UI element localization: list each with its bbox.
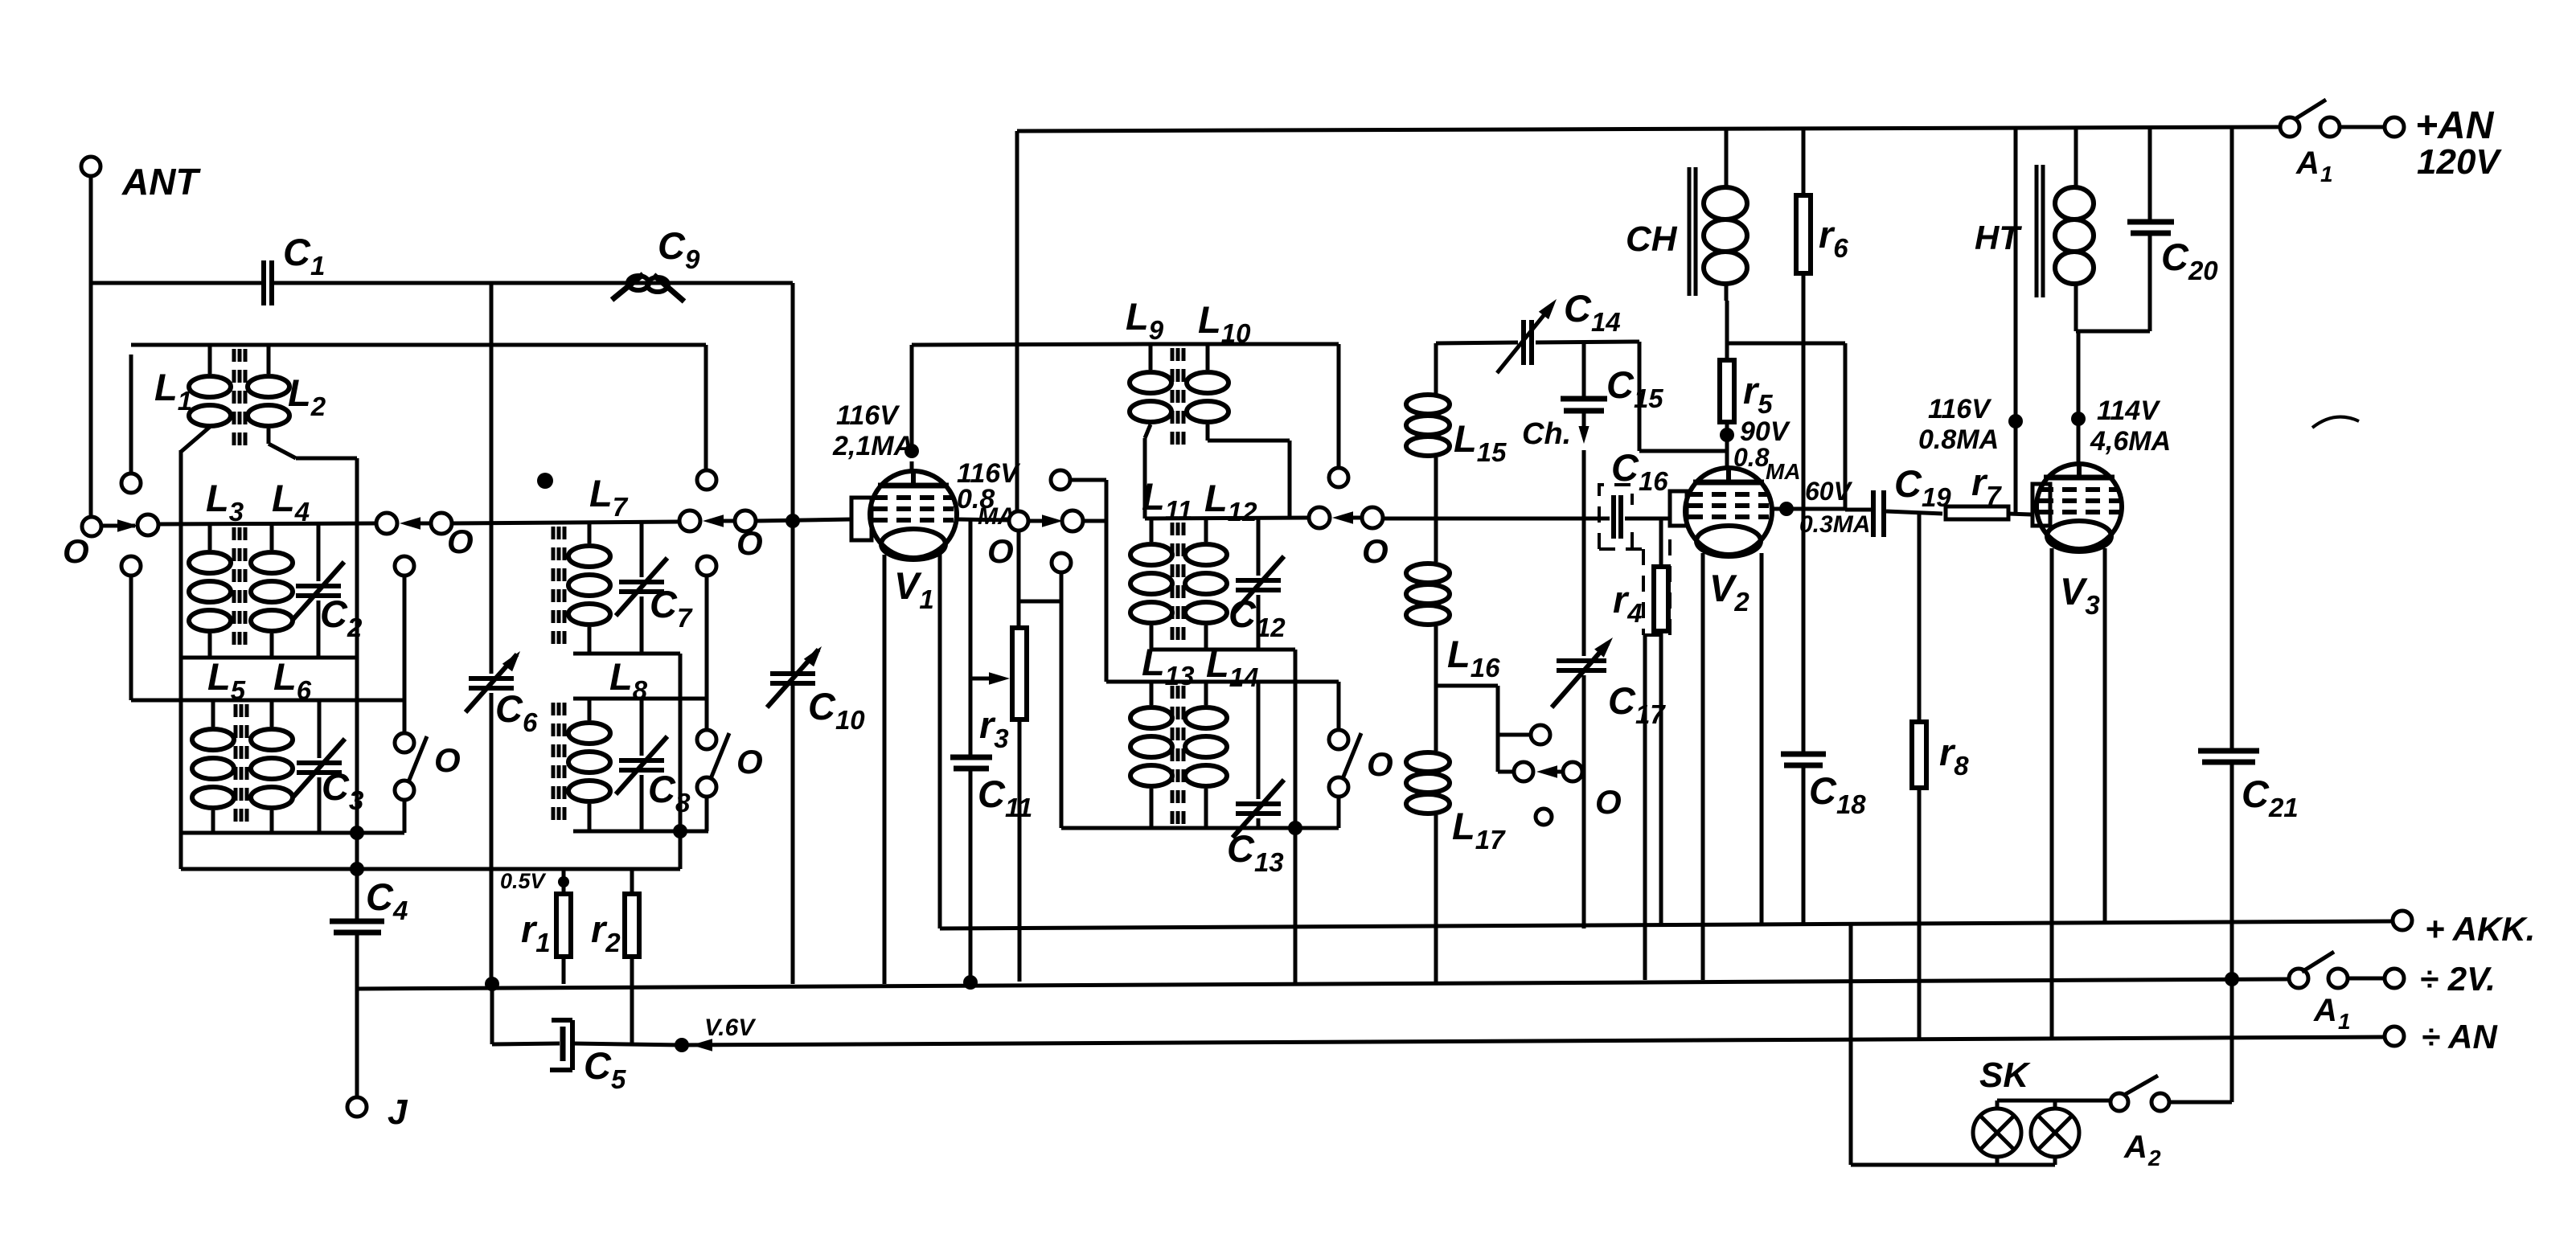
- resistor r2: [591, 869, 639, 1046]
- capacitor C14: [1497, 287, 1639, 373]
- label 116V 0.8MA: [957, 458, 1021, 530]
- contact circle: [679, 510, 700, 531]
- wire: [403, 576, 407, 733]
- svg-text:A: A: [2313, 993, 2337, 1028]
- svg-text:O: O: [434, 741, 461, 779]
- wire ANT down: [89, 176, 93, 517]
- svg-text:0.8: 0.8: [1733, 443, 1770, 472]
- svg-text:÷ AN: ÷ AN: [2422, 1018, 2498, 1055]
- wire: [705, 797, 709, 831]
- wire grid to C16: [1382, 517, 1610, 521]
- terminal AN return: [2385, 1018, 2498, 1055]
- wire corner down: [1337, 344, 1341, 468]
- node: [2225, 972, 2239, 986]
- wire L9 L10 top right: [1145, 342, 1339, 346]
- wire AN bus: [1017, 127, 2280, 133]
- capacitor C9: [612, 224, 700, 301]
- svg-text:0.8MA: 0.8MA: [1918, 424, 1999, 455]
- switch circle: [1563, 762, 1582, 781]
- wire L13 L14 bottom: [1061, 826, 1339, 830]
- wire: [1337, 797, 1341, 828]
- contact circle: [1052, 553, 1071, 572]
- label 90V: [1733, 416, 1801, 484]
- wire L7 bottom: [573, 652, 680, 656]
- contact circle: [1329, 468, 1348, 487]
- capacitor C8: [616, 699, 691, 831]
- wire L9 bottom: [1143, 438, 1147, 519]
- terminal AKK: [2393, 910, 2535, 948]
- svg-text:O: O: [63, 532, 89, 570]
- inductor L12: [1185, 477, 1257, 650]
- svg-text:+ AKK.: + AKK.: [2425, 910, 2535, 948]
- svg-text:O: O: [987, 532, 1014, 570]
- wire V2 legs: [1703, 553, 1762, 980]
- wire L2 bottom: [296, 457, 357, 461]
- core L11 L12: [1172, 523, 1183, 646]
- decor arc: [2312, 417, 2359, 428]
- wire L15 top: [1436, 342, 1518, 394]
- wire: [403, 800, 407, 833]
- wire 2V bus: [358, 979, 2289, 989]
- switch contact: [395, 556, 414, 576]
- contact circle: [1536, 809, 1552, 825]
- wire corner down: [1294, 650, 1298, 828]
- wire V3 legs: [2052, 548, 2105, 1038]
- core L7: [553, 527, 564, 651]
- svg-text:120V: 120V: [2417, 142, 2502, 182]
- wire V2 anode: [1772, 502, 1845, 516]
- node grid junction: [786, 514, 800, 528]
- label 116V 0.8MA: [1918, 394, 1999, 455]
- capacitor C7: [616, 521, 693, 654]
- wire: [1083, 519, 1106, 523]
- wire AN return bus: [682, 1037, 2385, 1045]
- inductor L6: [251, 655, 312, 833]
- resistor r6: [1796, 129, 1848, 754]
- svg-text:+AN: +AN: [2415, 105, 2495, 147]
- contact circle upper: [121, 473, 141, 493]
- capacitor C5: [492, 984, 682, 1094]
- inductor L13: [1130, 641, 1194, 828]
- capacitor C17: [1552, 637, 1666, 729]
- label O: [736, 524, 763, 562]
- wire L10 bottom: [1208, 441, 1290, 519]
- wire: [705, 576, 709, 730]
- inductor L3: [189, 477, 244, 658]
- switch circle: [1329, 730, 1348, 749]
- wiper arrow right: [1030, 514, 1063, 527]
- wire V1 left leg: [883, 555, 887, 984]
- label O: [447, 523, 474, 560]
- switch circle: [395, 781, 414, 800]
- resistor r5: [1720, 301, 1773, 468]
- tube V2: [1670, 468, 1772, 617]
- switch blade: [1342, 733, 1361, 781]
- contact circle: [1362, 507, 1383, 528]
- wire A2 riser: [2230, 979, 2234, 1102]
- capacitor C13: [1227, 682, 1284, 877]
- svg-text:O: O: [736, 524, 763, 562]
- wire C14 corner: [1639, 342, 1725, 451]
- wire to L3: [158, 523, 376, 524]
- wire L15 L16: [1434, 457, 1438, 562]
- switch A2: [2110, 1076, 2232, 1170]
- core L9 L10: [1172, 348, 1183, 447]
- svg-text:60V: 60V: [1805, 477, 1853, 506]
- switch circle: [1514, 762, 1533, 781]
- contact circle: [376, 513, 397, 534]
- wire to V1 grid: [756, 519, 851, 521]
- wiper arrow: [1536, 765, 1563, 778]
- wire L17 down: [1434, 815, 1438, 982]
- wire L5 L6 top: [131, 699, 403, 703]
- inductor L17: [1406, 752, 1506, 855]
- capacitor C11: [950, 757, 1032, 982]
- wire x444 down: [355, 458, 359, 921]
- svg-text:0.5V: 0.5V: [500, 869, 547, 893]
- svg-text:4,6MA: 4,6MA: [2090, 426, 2171, 457]
- inductor L15: [1406, 395, 1507, 467]
- svg-text:V.6V: V.6V: [704, 1015, 757, 1041]
- svg-text:A: A: [2123, 1129, 2147, 1165]
- label 114V: [2090, 396, 2171, 457]
- capacitor C21: [2198, 129, 2299, 979]
- capacitor C3: [293, 700, 363, 833]
- inductor L8: [568, 655, 648, 831]
- wire C15 C17 line: [1582, 450, 1586, 928]
- wire L8 bottom: [573, 830, 708, 834]
- resistor r3: [979, 628, 1027, 982]
- wire AN riser: [1015, 133, 1019, 511]
- wire x1376 down: [1105, 480, 1109, 682]
- wire: [1070, 478, 1106, 482]
- capacitor C4: [330, 869, 408, 1097]
- core L8: [553, 703, 564, 828]
- shield dashed box: [1599, 485, 1670, 635]
- contact circle: [735, 510, 756, 531]
- capacitor C6: [466, 283, 538, 984]
- label 116V 2.1MA: [832, 400, 913, 461]
- label O: [987, 532, 1014, 570]
- resistor r1: [500, 869, 571, 984]
- label O switch: [1367, 745, 1393, 783]
- wire L3 L4 bottom: [181, 656, 357, 660]
- switch A1 bottom: [2289, 952, 2404, 1034]
- svg-text:1: 1: [2338, 1009, 2351, 1034]
- svg-text:MA: MA: [1766, 459, 1801, 484]
- svg-text:O: O: [1362, 532, 1388, 570]
- wire lamp bottom: [1851, 1163, 2055, 1167]
- wire bottom left: [181, 867, 680, 871]
- wire down to bus: [1294, 828, 1298, 982]
- label 60V: [1799, 477, 1870, 538]
- wire L5 L6 bottom: [181, 831, 404, 835]
- svg-text:O: O: [1595, 783, 1622, 821]
- capacitor C10: [767, 646, 865, 735]
- contact circle: [1062, 510, 1083, 531]
- wire L8 top: [573, 697, 707, 701]
- svg-text:O: O: [1367, 745, 1393, 783]
- svg-text:0.3MA: 0.3MA: [1799, 511, 1870, 538]
- contact circle: [137, 514, 158, 535]
- capacitor C18: [1781, 754, 1866, 923]
- wiper arrow: [1332, 511, 1362, 524]
- wire: [1019, 572, 1061, 601]
- wire L16 tap: [1436, 686, 1498, 772]
- capacitor C2: [293, 523, 363, 658]
- label O switch: [434, 741, 461, 779]
- lamp SK 2: [2031, 1101, 2079, 1165]
- switch A1 top: [2280, 100, 2404, 187]
- switch circle: [697, 730, 716, 749]
- node: [350, 862, 364, 876]
- inductor L5: [192, 655, 246, 833]
- wire riser: [704, 345, 708, 470]
- svg-text:Ch.: Ch.: [1522, 417, 1571, 451]
- inductor L7: [568, 472, 629, 654]
- contact circle: [697, 556, 716, 576]
- wiper arrow left: [703, 514, 735, 527]
- node: [350, 826, 364, 840]
- resistor r7: [1946, 461, 2031, 519]
- inductor L4: [251, 477, 310, 658]
- core L3 L4: [234, 527, 245, 653]
- core L5 L6: [236, 704, 247, 828]
- wire tap contact: [1498, 733, 1531, 737]
- wire antenna horizontal: [91, 281, 261, 285]
- svg-text:116V: 116V: [836, 400, 900, 431]
- wire: [129, 576, 133, 700]
- capacitor C12: [1229, 519, 1286, 650]
- svg-text:÷ 2V.: ÷ 2V.: [2420, 960, 2496, 998]
- terminal J: [347, 1092, 408, 1132]
- capacitor C15: [1561, 342, 1663, 444]
- wire V1 anode: [904, 345, 919, 471]
- terminal O left: [63, 517, 101, 570]
- core L1 L2: [234, 349, 245, 449]
- wire L1 bottom left rail: [179, 450, 183, 869]
- wire L11 L12 bottom: [1151, 648, 1295, 652]
- inductor L9: [1126, 295, 1171, 438]
- switch circle: [697, 777, 716, 797]
- svg-text:A: A: [2295, 146, 2320, 181]
- label V.6V: [691, 1015, 757, 1051]
- inductor L11: [1130, 475, 1192, 650]
- tube V3: [2032, 464, 2122, 620]
- node: [673, 824, 687, 838]
- resistor r4: [1613, 519, 1668, 924]
- wire L16 L17: [1434, 626, 1438, 751]
- capacitor C20: [2127, 129, 2218, 331]
- node: [485, 977, 499, 991]
- label O: [1595, 783, 1622, 821]
- capacitor C1: [264, 231, 793, 305]
- switch circle: [395, 733, 414, 752]
- svg-text:2: 2: [2147, 1146, 2161, 1170]
- inductor L14: [1185, 642, 1258, 828]
- contact circle: [697, 470, 716, 490]
- svg-text:114V: 114V: [2097, 396, 2161, 426]
- label O switch: [736, 743, 763, 781]
- choke CH: [1626, 129, 1747, 301]
- wire L13 top: [1106, 680, 1339, 684]
- wire to r3: [1017, 531, 1021, 628]
- wire x1320 down: [1060, 601, 1064, 828]
- wire shield ground: [1643, 635, 1647, 980]
- wire C16 to V2: [1625, 517, 1670, 521]
- switch circle: [1329, 777, 1348, 797]
- inductor L16: [1406, 564, 1500, 682]
- svg-text:CH: CH: [1626, 219, 1678, 259]
- node: [963, 975, 978, 990]
- wire lamp top: [1997, 1099, 2110, 1103]
- label +AN: [2415, 105, 2502, 182]
- wire x2295 down: [1844, 343, 1848, 509]
- lamp SK 1: [1973, 1101, 2021, 1165]
- wire r5 top: [1727, 342, 1845, 346]
- svg-text:2,1MA: 2,1MA: [832, 431, 913, 461]
- wire SK drop: [1849, 923, 1853, 1165]
- svg-text:116V: 116V: [1928, 394, 1992, 424]
- label O: [1362, 532, 1388, 570]
- label Ch: [1522, 417, 1571, 451]
- wire: [129, 355, 133, 473]
- inductor L10: [1187, 298, 1251, 441]
- wiper arrow left: [400, 517, 431, 530]
- wire V1 out: [957, 519, 1009, 520]
- wire contact: [101, 519, 138, 532]
- svg-text:O: O: [447, 523, 474, 560]
- node stray: [537, 473, 553, 489]
- inductor L1: [154, 345, 231, 452]
- ANT terminal: [81, 157, 201, 203]
- contact circle: [1051, 470, 1070, 490]
- wire x846 down: [679, 654, 683, 869]
- contact circle: [1531, 725, 1550, 744]
- wire x1207: [969, 519, 973, 757]
- label 2V: [2420, 960, 2496, 998]
- wire L11 top: [1145, 518, 1310, 519]
- svg-text:HT: HT: [1975, 219, 2022, 256]
- tube V1: [851, 471, 957, 614]
- core L13 L14: [1172, 686, 1183, 825]
- wire L1 L2 top: [131, 343, 706, 347]
- wire AKK bus: [940, 553, 2393, 928]
- wiper arrow r3: [970, 672, 1010, 685]
- node: [675, 1038, 689, 1052]
- switch blade: [710, 733, 729, 781]
- contact circle: [1309, 507, 1330, 528]
- capacitor C16: [1611, 446, 1668, 539]
- label SK: [1979, 1055, 2031, 1095]
- switch blade: [408, 736, 427, 784]
- contact circle: [121, 556, 141, 576]
- wire HT bottom: [2071, 331, 2150, 464]
- svg-text:SK: SK: [1979, 1055, 2031, 1095]
- inductor L2: [248, 345, 326, 458]
- contact circle: [1009, 511, 1028, 531]
- wire riser x986: [791, 283, 795, 984]
- transformer HT: [1975, 129, 2094, 331]
- wire AN riser2: [2008, 129, 2023, 514]
- wire C9 to riser: [0, 0, 1, 1]
- capacitor C19: [1845, 462, 1951, 537]
- node: [1288, 821, 1302, 835]
- svg-text:ANT: ANT: [121, 161, 201, 203]
- resistor r8: [1912, 514, 1969, 1038]
- contact circle: [431, 513, 452, 534]
- svg-text:1: 1: [2320, 162, 2333, 187]
- wire to L7: [452, 522, 679, 523]
- wire anode top: [912, 344, 1145, 345]
- wire corner: [1337, 682, 1341, 730]
- svg-text:J: J: [388, 1092, 408, 1132]
- wire: [1498, 770, 1514, 774]
- svg-text:O: O: [736, 743, 763, 781]
